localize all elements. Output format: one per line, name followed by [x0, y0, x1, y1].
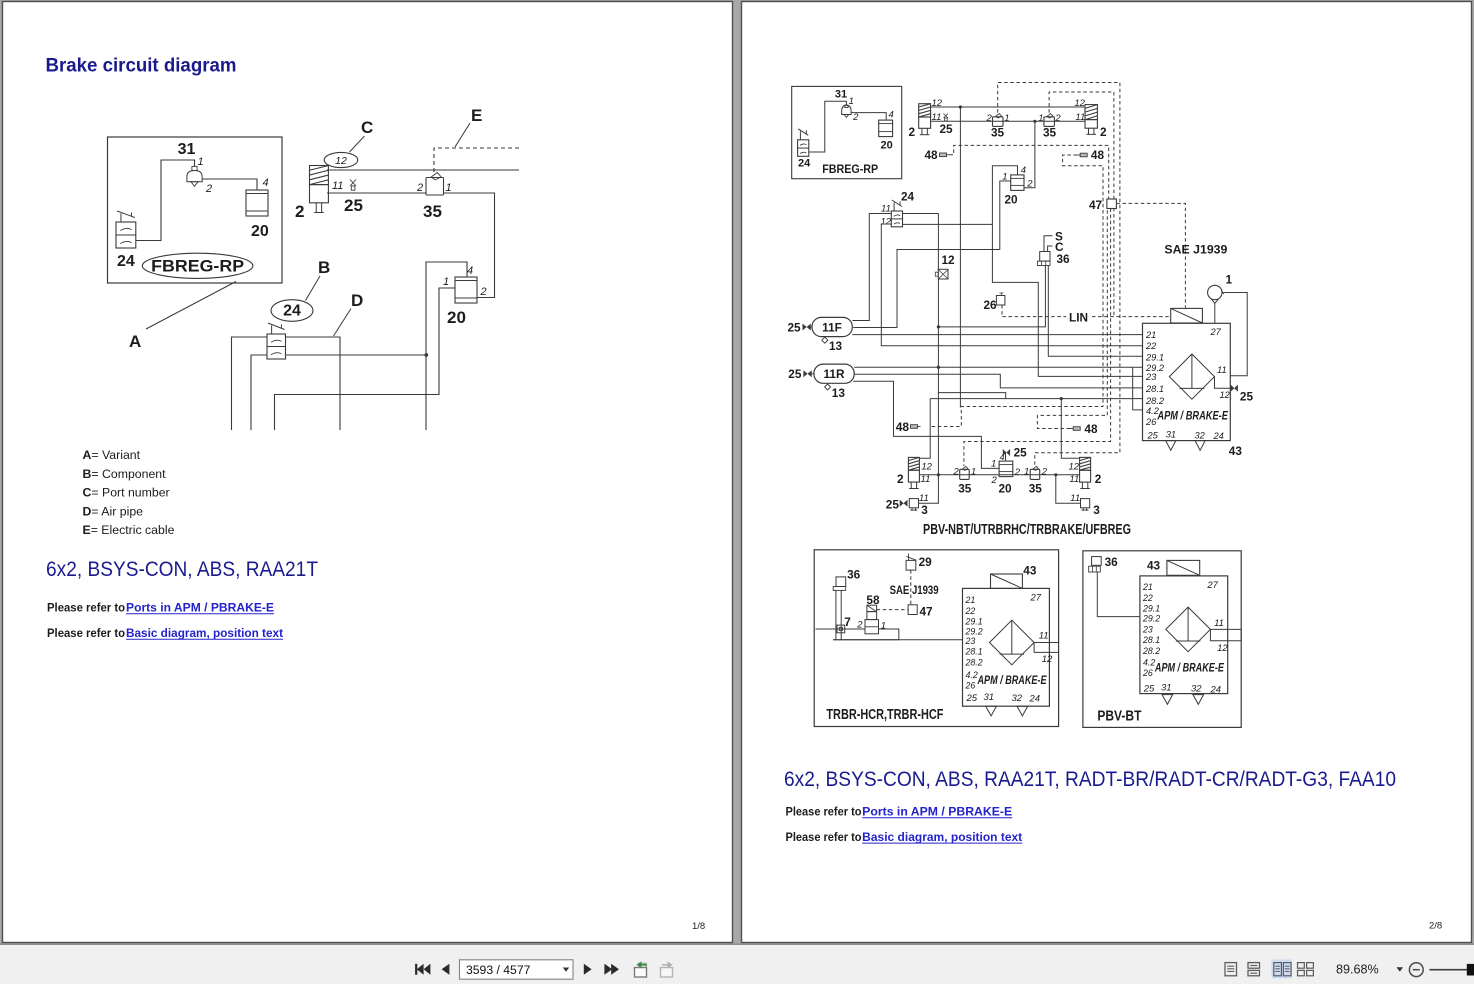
svg-text:2: 2: [1041, 467, 1048, 478]
svg-text:12: 12: [921, 462, 932, 473]
APM block (sub TRBR): [963, 588, 1050, 706]
svg-text:2: 2: [1100, 125, 1107, 139]
svg-text:25: 25: [1147, 430, 1159, 440]
dashed drop 26 to LIN: [1001, 305, 1003, 317]
svg-text:28.1: 28.1: [1145, 384, 1164, 394]
svg-text:11R: 11R: [824, 367, 845, 381]
svg-text:1: 1: [198, 156, 204, 168]
svg-text:26: 26: [965, 681, 976, 691]
wire reservoir port2 up to brake line: [1024, 121, 1035, 188]
diagnostic relay on APM top: [1171, 308, 1203, 323]
wire to APM 28.2 with branches: [930, 398, 1142, 400]
reservoir 20 (in variant box): [246, 190, 268, 216]
S wire: [1044, 236, 1053, 252]
wire valve24 port12 left loop to APM 22: [881, 224, 1142, 346]
APM block (PBV-BT): [1140, 576, 1228, 694]
svg-text:21: 21: [1142, 582, 1153, 592]
wire test3 right to main line: [1056, 475, 1081, 503]
zoom dropdown arrow: [1397, 967, 1404, 971]
APM diamond (sub TRBR): [990, 620, 1035, 665]
LIN bus dashed with label: [1002, 316, 1066, 318]
lower valve 35 right: [1030, 466, 1040, 479]
svg-text:25: 25: [1014, 446, 1028, 460]
svg-text:24: 24: [283, 303, 301, 320]
svg-text:3: 3: [921, 503, 928, 517]
svg-text:B: B: [318, 258, 330, 277]
brake cylinder 2 top-right (p2): [1085, 105, 1097, 135]
group box TRBR-HCR,TRBR-HCF: [814, 550, 1058, 727]
svg-text:C= Port number: C= Port number: [83, 486, 170, 500]
svg-text:1: 1: [446, 182, 452, 194]
svg-text:D= Air pipe: D= Air pipe: [83, 504, 144, 518]
vent symbol (p2 top): [944, 114, 949, 122]
switch 29: [906, 554, 932, 571]
svg-text:2: 2: [986, 113, 993, 124]
group box PBV-BT: [1083, 551, 1241, 728]
svg-text:11: 11: [332, 180, 343, 192]
port number ellipse 12: [324, 152, 358, 167]
svg-text:23: 23: [1142, 625, 1153, 635]
branch down to lower right cylinder: [1061, 399, 1079, 459]
dashed 58 to 47: [877, 609, 909, 611]
wire sensor to reservoir (p2): [851, 113, 886, 121]
svg-text:1: 1: [443, 276, 449, 288]
C wire: [1048, 246, 1053, 252]
wire reservoir port1 left and down to bottom: [275, 288, 456, 430]
svg-text:31: 31: [1161, 683, 1172, 694]
svg-text:29.1: 29.1: [1142, 603, 1160, 613]
vent valve symbol above 25: [350, 180, 356, 191]
svg-text:12: 12: [1069, 462, 1080, 473]
svg-text:PBV-BT: PBV-BT: [1097, 709, 1141, 725]
svg-text:APM / BRAKE-E: APM / BRAKE-E: [977, 675, 1047, 687]
previous view icon: [635, 961, 648, 977]
port 11/12 stubs (PBV-BT): [1210, 618, 1241, 654]
junction dots on connector-12 drop: [937, 325, 940, 328]
node 47 (sub): [908, 604, 933, 618]
svg-text:35: 35: [991, 126, 1005, 140]
svg-text:SAE J1939: SAE J1939: [1164, 243, 1227, 257]
APM / BRAKE-E control unit: [1143, 323, 1231, 440]
sensor 36 (p2 main): [1038, 252, 1051, 266]
svg-text:2: 2: [909, 125, 916, 139]
hand brake valve 24 (p2 main): [891, 200, 902, 227]
hand brake valve 24 (variant box p2): [798, 129, 809, 157]
svg-text:25: 25: [886, 498, 900, 512]
svg-text:11F: 11F: [822, 321, 842, 335]
svg-text:B= Component: B= Component: [83, 467, 167, 481]
branch down to lower left cylinder: [919, 399, 930, 459]
svg-text:1: 1: [1038, 113, 1043, 124]
reservoir 20 (p2 mid): [1011, 175, 1024, 191]
sensor36 right pin to APM 29.1: [1048, 266, 1142, 357]
svg-text:4: 4: [889, 110, 894, 121]
svg-text:25: 25: [344, 196, 363, 215]
wire sensor31 port2 to reservoir20: [202, 179, 257, 190]
brake cylinder 2 top-left (p2): [919, 104, 931, 135]
indicator lamp 1: [1208, 285, 1224, 323]
svg-text:2: 2: [953, 467, 960, 478]
svg-text:12: 12: [1220, 390, 1231, 400]
svg-text:1: 1: [971, 467, 976, 478]
svg-text:1: 1: [849, 96, 854, 107]
svg-text:29.2: 29.2: [1142, 614, 1160, 624]
pipe through 7: [816, 628, 866, 630]
two page view icon (active): [1272, 959, 1293, 978]
wire valve24 port11 left loop to 11F top: [852, 214, 891, 321]
previous page button: [442, 964, 450, 975]
svg-text:26: 26: [984, 298, 998, 312]
solenoid 58: [866, 593, 880, 612]
svg-text:11: 11: [1217, 365, 1227, 375]
svg-text:Ports in APM / PBRAKE-E: Ports in APM / PBRAKE-E: [862, 807, 1012, 819]
air pipe valve24 top port to left drop: [232, 337, 268, 430]
svg-text:12: 12: [1217, 643, 1228, 654]
svg-text:4.2: 4.2: [1143, 658, 1155, 668]
svg-text:28.1: 28.1: [1142, 635, 1160, 645]
electric cable dashed wire: [434, 148, 519, 174]
svg-text:Basic diagram, position text: Basic diagram, position text: [126, 628, 283, 640]
svg-text:11: 11: [921, 474, 931, 485]
toolbar background: [0, 945, 1474, 984]
svg-text:35: 35: [423, 202, 442, 221]
svg-text:24: 24: [1210, 685, 1222, 696]
svg-text:13: 13: [832, 386, 846, 400]
svg-text:28.1: 28.1: [965, 646, 983, 656]
svg-text:27: 27: [1030, 593, 1042, 604]
svg-text:FBREG-RP: FBREG-RP: [822, 162, 878, 176]
relay 43 (PBV-BT): [1167, 560, 1200, 575]
svg-text:20: 20: [999, 482, 1013, 496]
next view icon (disabled): [661, 961, 673, 977]
brake line y121: [931, 120, 1085, 122]
svg-text:43: 43: [1229, 444, 1243, 458]
svg-text:43: 43: [1023, 564, 1037, 578]
junction dot: [424, 353, 428, 357]
svg-text:FBREG-RP: FBREG-RP: [151, 257, 244, 275]
svg-text:11: 11: [1070, 493, 1080, 504]
svg-text:25: 25: [1143, 684, 1155, 695]
wire 36 to APM 29.2 (PBV-BT): [1097, 572, 1140, 617]
APM bottom port labels: [1147, 429, 1224, 441]
svg-text:24: 24: [1213, 431, 1224, 441]
svg-text:31: 31: [984, 692, 995, 703]
APM diamond (PBV-BT): [1166, 607, 1211, 652]
svg-text:A: A: [129, 332, 141, 351]
wire valve24 port12 right to reservoir drop: [903, 223, 993, 225]
svg-text:24: 24: [1029, 694, 1041, 705]
svg-text:11: 11: [1075, 112, 1085, 123]
svg-text:A= Variant: A= Variant: [83, 448, 141, 462]
svg-text:26: 26: [1145, 417, 1157, 427]
svg-text:28.2: 28.2: [1145, 396, 1165, 406]
svg-text:36: 36: [1057, 252, 1071, 266]
test point 3 right: [1070, 493, 1100, 517]
svg-text:6x2, BSYS-CON, ABS, RAA21T: 6x2, BSYS-CON, ABS, RAA21T: [46, 558, 318, 581]
svg-text:58: 58: [866, 593, 880, 607]
svg-text:Please refer to: Please refer to: [786, 807, 862, 819]
reservoir 20 (variant box p2): [879, 120, 893, 137]
component ellipse 24: [271, 300, 313, 322]
svg-text:2: 2: [897, 472, 904, 486]
svg-text:Basic diagram, position text: Basic diagram, position text: [862, 832, 1022, 844]
svg-text:2: 2: [852, 112, 859, 123]
svg-text:27: 27: [1210, 327, 1222, 337]
svg-text:29.1: 29.1: [965, 616, 983, 626]
svg-text:25: 25: [788, 321, 802, 335]
wire valve24 port11 right down long: [903, 214, 939, 475]
svg-text:6x2, BSYS-CON, ABS, RAA21T, RA: 6x2, BSYS-CON, ABS, RAA21T, RADT-BR/RADT…: [784, 768, 1396, 791]
drain 13 below 11R: [825, 384, 846, 400]
air pipe valve24 lower port left drop: [251, 355, 267, 430]
svg-text:23: 23: [1145, 372, 1157, 382]
test point 3 left: [886, 493, 929, 517]
APM bottom labels (sub TRBR): [966, 692, 1041, 716]
svg-text:2: 2: [1054, 113, 1061, 124]
svg-text:4: 4: [263, 177, 269, 189]
rear axle modulator 11R: [814, 364, 854, 383]
svg-text:12: 12: [1042, 654, 1053, 665]
svg-text:20: 20: [1005, 193, 1019, 207]
svg-text:47: 47: [1089, 198, 1103, 212]
two page continuous icon: [1298, 963, 1314, 976]
junction dots top lines: [959, 105, 962, 108]
continuous view icon: [1248, 963, 1260, 976]
svg-text:E= Electric cable: E= Electric cable: [83, 523, 175, 537]
svg-text:11: 11: [881, 204, 891, 215]
svg-text:SAE J1939: SAE J1939: [890, 585, 939, 597]
svg-text:25: 25: [966, 693, 978, 704]
page number combo box: [460, 960, 574, 979]
svg-text:Please refer to: Please refer to: [47, 628, 125, 640]
dashed node47 right to SAE J1939 drop: [1116, 203, 1185, 307]
wire sensor31 port1 to valve24: [136, 160, 195, 241]
svg-text:13: 13: [829, 339, 843, 353]
single page view icon: [1225, 963, 1237, 976]
valve 35 #1 (p2 top): [993, 114, 1004, 127]
svg-text:12: 12: [1074, 98, 1085, 109]
variant box FBREG-RP (page2): [792, 86, 902, 178]
svg-text:12: 12: [881, 217, 892, 228]
svg-text:11: 11: [1069, 474, 1079, 485]
svg-text:48: 48: [925, 148, 939, 162]
line cylinder port 11 to valve 35: [327, 192, 426, 194]
wire 11R bottom port long run to lower reservoir: [853, 381, 999, 468]
svg-text:Brake circuit diagram: Brake circuit diagram: [46, 56, 237, 77]
port 11/12 stubs (sub TRBR): [1034, 631, 1059, 665]
svg-text:11: 11: [1214, 618, 1224, 629]
svg-text:3593 / 4577: 3593 / 4577: [466, 963, 531, 977]
svg-text:31: 31: [178, 141, 196, 158]
valve 35 #2 (p2 top): [1044, 114, 1055, 127]
svg-text:48: 48: [1091, 148, 1105, 162]
electric dashed loop top inner: [1049, 92, 1114, 317]
sensor36 left pin to junction on connector12 drop: [938, 266, 1045, 327]
lower valve 35 left: [960, 466, 970, 479]
relay 43 (sub TRBR): [991, 574, 1023, 588]
svg-text:29.1: 29.1: [1145, 353, 1164, 363]
svg-text:1: 1: [1226, 273, 1233, 287]
svg-text:E: E: [471, 106, 482, 125]
variant box FBREG-RP outline: [108, 137, 283, 283]
connector 25 above lower reservoir: [1003, 446, 1027, 462]
branch to APM 4.2: [1133, 367, 1143, 410]
pressure limiting valve 35 (page1): [426, 173, 444, 195]
zoom out button: [1409, 963, 1423, 977]
pipe valve port1 to APM 23 (sub): [833, 629, 899, 640]
svg-text:1: 1: [881, 621, 886, 632]
svg-text:12: 12: [335, 155, 347, 167]
svg-text:20: 20: [251, 223, 269, 240]
svg-text:1: 1: [1024, 467, 1029, 478]
svg-text:1: 1: [1004, 113, 1009, 124]
svg-text:29: 29: [919, 555, 933, 569]
svg-text:Ports in APM / PBRAKE-E: Ports in APM / PBRAKE-E: [126, 603, 274, 615]
wire reservoir port1 chain to 11F: [853, 181, 1011, 328]
svg-text:89.68%: 89.68%: [1336, 963, 1379, 977]
valve body under 58: [865, 612, 879, 634]
APM port 12 stub and connector 25: [1215, 377, 1254, 404]
brake cylinder 2 (page1): [310, 166, 329, 213]
wire valve35 port1 down to reservoir 20 port 2: [444, 193, 495, 298]
wire sensor to valve24 (p2): [809, 101, 846, 152]
air pipe valve24 lower port right to junction: [286, 354, 428, 356]
supply line from cylinder 2 top port 12: [327, 169, 519, 171]
sensor 36 (sub left): [833, 568, 860, 591]
APM bottom exhaust triangles: [1166, 441, 1205, 451]
svg-text:28.2: 28.2: [1142, 646, 1160, 656]
dashed node47 to lower-left valve nub: [964, 209, 1111, 467]
svg-text:2: 2: [205, 183, 212, 195]
svg-text:2: 2: [1095, 472, 1102, 486]
left page sheet: [3, 2, 733, 943]
staircase from connector12 drop to 28.2 line: [938, 393, 1005, 399]
svg-text:D: D: [351, 291, 363, 310]
svg-text:25: 25: [940, 122, 954, 136]
wire 11R top port to APM 29.2: [854, 366, 1142, 368]
svg-text:35: 35: [1029, 482, 1043, 496]
lower brake cylinder right: [1080, 457, 1091, 488]
dashed wire 48b: [931, 155, 1104, 427]
svg-text:1: 1: [991, 459, 996, 470]
svg-text:27: 27: [1206, 580, 1218, 591]
reservoir 20 (lower right, page1): [455, 277, 477, 303]
svg-text:22: 22: [1142, 593, 1153, 603]
svg-text:Please refer to: Please refer to: [786, 832, 862, 844]
hand brake valve 24 (variant box): [116, 211, 136, 248]
svg-text:12: 12: [942, 253, 956, 267]
svg-text:LIN: LIN: [1069, 310, 1088, 324]
svg-text:3: 3: [1093, 503, 1100, 517]
svg-text:24: 24: [117, 253, 135, 270]
svg-text:32: 32: [1191, 684, 1202, 695]
svg-text:31: 31: [1166, 429, 1176, 439]
svg-text:26: 26: [1142, 668, 1153, 678]
last page button: [604, 964, 619, 975]
right page sheet: [742, 2, 1472, 943]
hand brake valve 24 (main, page1): [267, 323, 286, 359]
lower reservoir 20: [999, 461, 1013, 477]
long vertical from supply line: [959, 107, 961, 408]
pressure sensor 31 (p2): [842, 105, 851, 117]
APM bottom labels (PBV-BT): [1143, 683, 1221, 705]
svg-text:35: 35: [958, 482, 972, 496]
wires 36 down (sub): [835, 590, 837, 639]
wire test3 left to main line: [919, 475, 939, 503]
wire lamp to APM port 11: [1224, 293, 1248, 376]
air pipe valve24 top port to right drop: [286, 337, 341, 430]
svg-text:48: 48: [896, 420, 910, 434]
svg-text:Please refer to: Please refer to: [47, 603, 125, 615]
zoom slider: [1430, 964, 1474, 976]
svg-text:25: 25: [1240, 390, 1254, 404]
svg-text:1/8: 1/8: [692, 921, 705, 932]
svg-text:TRBR-HCR,TRBR-HCF: TRBR-HCR,TRBR-HCF: [826, 707, 943, 723]
front axle modulator 11F: [812, 317, 852, 336]
svg-text:25: 25: [788, 367, 802, 381]
svg-text:20: 20: [447, 308, 466, 327]
wire 11F bottom port to APM 21: [852, 334, 1142, 336]
svg-text:28.2: 28.2: [965, 658, 983, 668]
APM diamond symbol: [1169, 354, 1214, 399]
svg-text:2/8: 2/8: [1429, 921, 1442, 932]
svg-text:2: 2: [295, 202, 304, 221]
svg-text:35: 35: [1043, 126, 1057, 140]
wire reservoir port4 up-left-down long run: [426, 262, 467, 430]
svg-text:43: 43: [1147, 559, 1161, 573]
svg-text:PBV-NBT/UTRBRHC/TRBRAKE/UFBREG: PBV-NBT/UTRBRHC/TRBRAKE/UFBREG: [923, 522, 1131, 538]
drain 13 below 11F: [822, 337, 843, 353]
svg-text:32: 32: [1195, 430, 1206, 440]
svg-text:32: 32: [1012, 693, 1023, 704]
throttle 7: [837, 615, 851, 633]
electric dashed loop top outer: [998, 83, 1120, 467]
electric node 47: [1089, 198, 1116, 212]
svg-text:APM / BRAKE-E: APM / BRAKE-E: [1154, 663, 1224, 675]
wire 11R mid port staircase to APM 28.1: [854, 374, 1142, 388]
svg-text:24: 24: [798, 158, 811, 170]
svg-text:2: 2: [991, 475, 998, 486]
svg-text:7: 7: [844, 615, 851, 629]
svg-text:36: 36: [847, 568, 861, 582]
svg-text:24: 24: [901, 190, 915, 204]
svg-text:C: C: [361, 118, 373, 137]
svg-text:4.2: 4.2: [966, 670, 978, 680]
wire reservoir port4 long to APM 23: [992, 166, 1142, 377]
svg-text:20: 20: [881, 140, 893, 152]
svg-text:APM / BRAKE-E: APM / BRAKE-E: [1157, 408, 1229, 422]
variant name ellipse FBREG-RP: [142, 253, 253, 278]
svg-text:C: C: [1055, 240, 1064, 254]
svg-text:48: 48: [1084, 422, 1098, 436]
svg-text:31: 31: [835, 89, 847, 101]
next page button: [584, 964, 592, 975]
dashed 48 to node47 branch: [1037, 209, 1107, 429]
dashed wire 48 to node47: [950, 145, 1109, 199]
svg-text:22: 22: [965, 606, 976, 616]
pressure sensor 31: [187, 167, 202, 187]
svg-text:4: 4: [1021, 165, 1026, 176]
svg-text:4: 4: [467, 265, 473, 277]
APM port labels: [1145, 327, 1222, 427]
svg-text:36: 36: [1105, 555, 1119, 569]
lower main brake line: [919, 474, 1079, 476]
sensor 36 (PBV-BT): [1089, 555, 1118, 572]
svg-text:22: 22: [1145, 341, 1157, 351]
lower brake cylinder left: [908, 457, 919, 488]
svg-text:21: 21: [965, 595, 976, 605]
supply line top y107: [931, 106, 1085, 108]
